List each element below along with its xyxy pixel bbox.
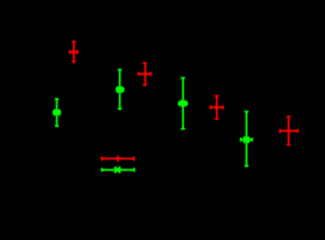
red data point 6 with xy error bars [211, 96, 223, 119]
green data point 2 with xy error bars [54, 99, 60, 126]
green data point 7 with xy error bars [241, 112, 252, 166]
green data point 3 with xy error bars [117, 70, 124, 109]
red data point 8 with xy error bars [280, 117, 298, 145]
green legend sample (x marker) [102, 167, 134, 173]
red data point 4 with xy error bars [139, 63, 151, 85]
red data point 1 with xy error bars [70, 42, 78, 62]
red legend sample (plus marker) [102, 155, 134, 161]
green data point 5 with xy error bars [179, 78, 187, 129]
